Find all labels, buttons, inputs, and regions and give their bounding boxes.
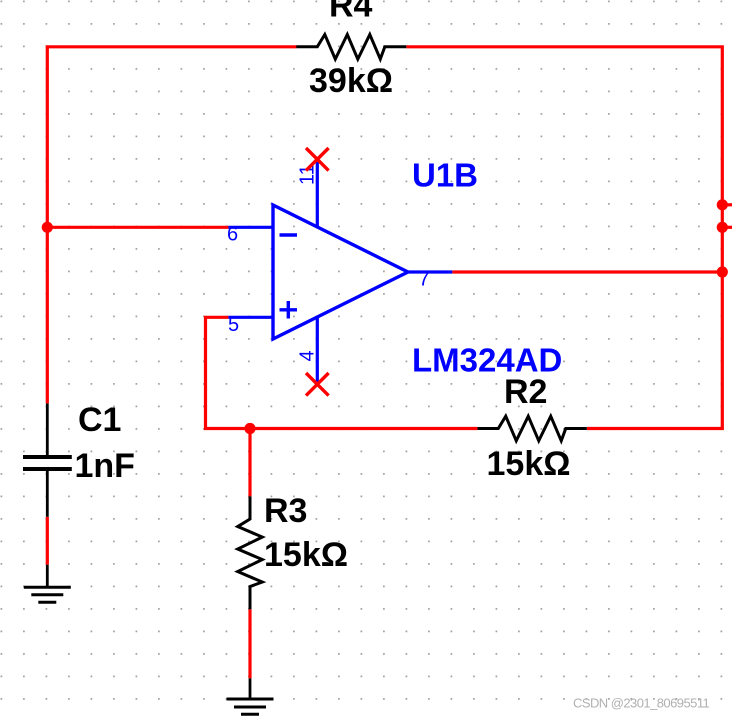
svg-text:15kΩ: 15kΩ [264,536,348,574]
no-connect X on pin 4 [306,373,329,396]
wire: top-right horizontal + right vertical + R2 right segment [406,47,722,429]
svg-text:4: 4 [297,350,319,361]
ground (R3) [227,678,274,714]
svg-text:5: 5 [228,314,239,336]
junction node right bus upper [717,199,728,210]
svg-text:39kΩ: 39kΩ [309,62,393,100]
svg-text:1nF: 1nF [75,447,135,485]
junction node right bus output [717,266,728,277]
svg-text:R4: R4 [329,0,373,25]
capacitor C1 [23,403,72,516]
wire: R3 bottom to ground [248,609,251,678]
wire: C1 bottom to ground [46,517,49,565]
resistor R2 [477,416,586,441]
svg-text:6: 6 [227,224,238,246]
svg-text:15kΩ: 15kΩ [487,445,571,483]
svg-text:CSDN @2301_80695511: CSDN @2301_80695511 [573,696,710,711]
no-connect X on pin 11 [306,148,329,171]
ground (C1) [24,565,71,603]
svg-text:LM324AD: LM324AD [412,342,562,379]
op-amp minus symbol [280,233,298,236]
pin 11 stub [316,159,319,227]
svg-text:R2: R2 [504,373,547,411]
wire: non-inverting input (pin 5) loop down to bottom rail [206,317,478,428]
wire: op-amp output to right bus [452,270,722,273]
pin 7 stub [407,270,452,273]
svg-text:U1B: U1B [412,157,478,194]
wire: R3 top lead to bottom rail [248,429,251,497]
op-amp plus symbol [280,301,298,319]
wire: right stub lower [722,226,732,229]
pin 4 stub [316,317,319,384]
wire: left vertical + top-left horizontal (C1 to R4) [47,47,296,404]
pin 6 stub [228,226,273,229]
junction node at bottom rail / R3 [244,423,255,434]
svg-text:R3: R3 [264,492,307,530]
pin 5 stub [228,316,273,319]
resistor R4 [296,35,406,60]
svg-text:7: 7 [419,269,430,291]
junction node right bus lower [717,222,728,233]
wire: right stub upper [722,203,732,206]
wire: inverting input (pin 6) from left node [47,226,228,229]
resistor R3 [238,496,263,609]
op-amp U1B triangle [273,205,408,339]
junction node at left (C1 / pin6) [42,222,53,233]
svg-text:C1: C1 [78,401,121,439]
